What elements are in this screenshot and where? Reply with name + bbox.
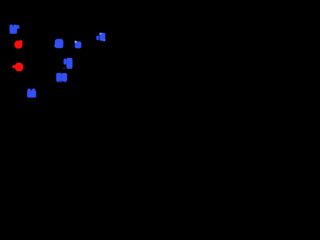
atom N5 (ring nitrogen A) [55,39,63,47]
atom N4 (bottom-left nitrogen label) [28,89,36,97]
atom N9 (right nitrogen E) [97,33,105,41]
atom O1 (upper-left oxygen label) [15,40,22,48]
molecule structure rendering on black background [0,0,130,130]
atom O2 (lower-left oxygen label) [13,63,23,71]
atom N7 (ring nitrogen C with H below) [64,58,72,69]
background [0,0,130,130]
atom N8 (NH group D) [57,73,67,82]
atom N6 (ring nitrogen B) [75,41,81,48]
atom N1 (top-left nitrogen label) [10,25,19,33]
